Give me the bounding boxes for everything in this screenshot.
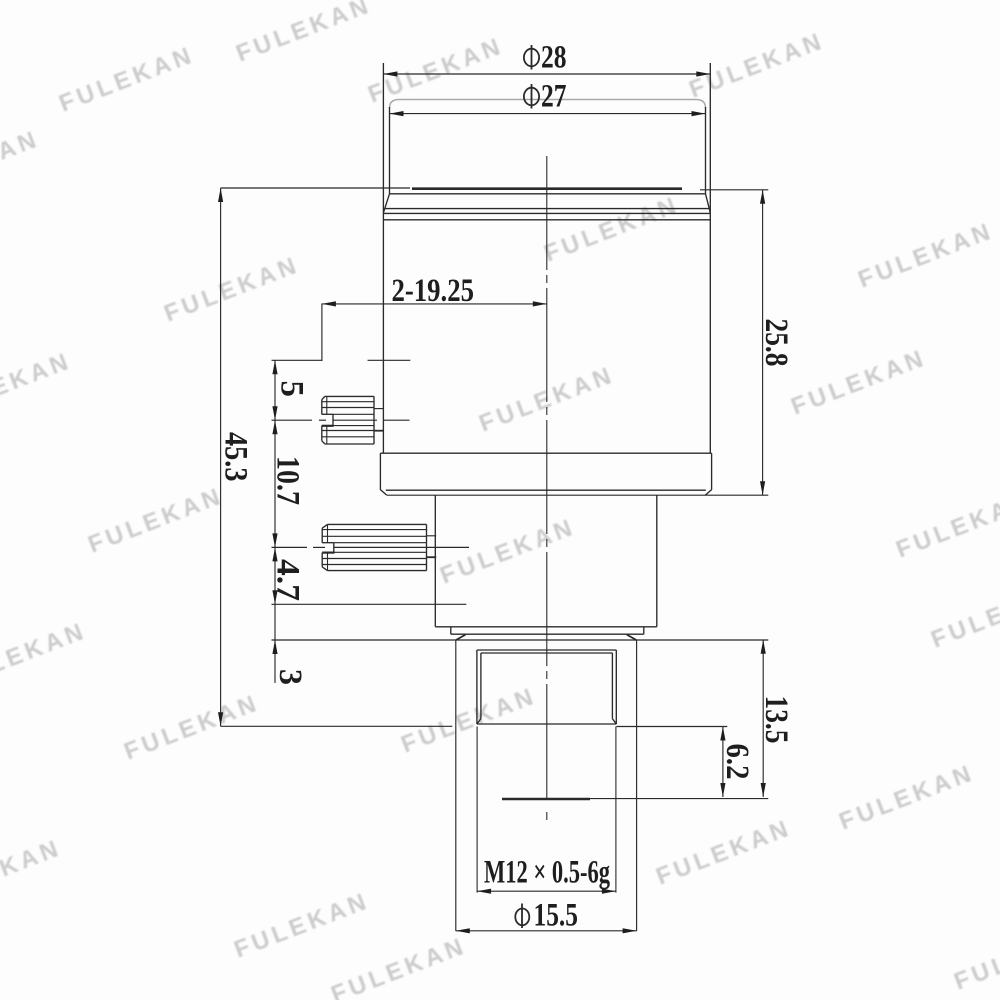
svg-text:6.2: 6.2	[719, 744, 755, 780]
screw2 shank	[427, 536, 437, 557]
cap phi27 left edge	[389, 107, 391, 194]
svg-text:FULEKAN: FULEKAN	[230, 887, 373, 963]
thread left crest edge	[476, 650, 478, 724]
svg-text:FULEKAN: FULEKAN	[787, 344, 930, 420]
flange bottom edge	[386, 489, 706, 491]
svg-text:2-19.25: 2-19.25	[392, 273, 475, 309]
screw2 knurl lines	[322, 530, 426, 565]
thread right root line	[611, 653, 613, 719]
flange bottom right chamfer	[705, 490, 711, 496]
svg-text:FULEKAN: FULEKAN	[160, 251, 303, 327]
svg-text:FULEKAN: FULEKAN	[84, 482, 227, 558]
neck right chamfer mark	[627, 635, 637, 640]
flange top edge	[380, 452, 711, 454]
svg-text:FULEKAN: FULEKAN	[854, 217, 997, 293]
tick y604	[272, 603, 467, 605]
screw2 slot	[322, 543, 334, 553]
svg-text:FULEKAN: FULEKAN	[120, 689, 263, 765]
screw2 head outline	[322, 524, 426, 570]
thread left root line	[480, 653, 482, 719]
ring bottom line	[383, 219, 710, 221]
dimension 2-19.25	[322, 304, 547, 362]
dimension phi27 arrows	[390, 111, 706, 116]
bottom extension line to 13.5 and 6.2	[590, 798, 768, 800]
chain arrows	[272, 360, 277, 654]
dimension M12 line	[477, 890, 616, 892]
svg-text:FULEKAN: FULEKAN	[0, 834, 65, 910]
long tick y640	[272, 639, 769, 641]
cap seam thick line	[412, 187, 682, 190]
ring groove line 1	[385, 208, 709, 210]
screw1 knurl lines	[322, 402, 374, 437]
svg-text:28: 28	[541, 40, 567, 76]
M12 left extension line	[476, 727, 478, 893]
svg-text:FULEKAN: FULEKAN	[436, 513, 579, 589]
mid cylinder bottom edge	[435, 626, 657, 628]
dimension phi27 line	[390, 113, 706, 115]
dimension 6.2	[617, 727, 728, 798]
phi15.5 left edge and extension line	[455, 640, 457, 931]
thread top inner line	[481, 652, 613, 654]
body left edge with phi28 extension	[382, 63, 384, 453]
ring left chamfer	[383, 194, 389, 213]
vertical centerline	[546, 156, 548, 820]
svg-text:FULEKAN: FULEKAN	[55, 41, 198, 117]
mid cylinder left edge	[434, 495, 436, 627]
phi15.5 right edge and extension line	[636, 640, 638, 931]
chain dimension vertical line	[272, 360, 769, 683]
svg-text:45.3: 45.3	[218, 432, 254, 482]
flange right edge	[711, 453, 713, 490]
dimension 45.3 arrows	[218, 188, 223, 726]
thread bottom edge	[477, 723, 616, 725]
screw1 shank	[374, 409, 384, 431]
step plate left edge	[450, 627, 452, 634]
svg-text:FULEKAN: FULEKAN	[0, 617, 90, 693]
svg-text:10.7: 10.7	[270, 456, 306, 505]
svg-text:FULEKAN: FULEKAN	[0, 347, 75, 423]
dimension phi28 line	[383, 73, 710, 75]
cap bottom edge	[390, 193, 706, 195]
ring right chamfer	[706, 194, 711, 213]
dimension 25.8	[700, 190, 768, 495]
svg-text:FULEKAN: FULEKAN	[327, 932, 470, 1000]
svg-text:FULEKAN: FULEKAN	[835, 759, 978, 835]
flange bottom left chamfer	[380, 490, 386, 496]
svg-text:13.5: 13.5	[758, 696, 794, 744]
screw1 head outline	[322, 396, 374, 444]
svg-text:4.7: 4.7	[270, 559, 306, 601]
svg-text:FULEKAN: FULEKAN	[397, 682, 540, 758]
dimension 45.3 line	[221, 188, 453, 726]
screw2 centerline	[272, 546, 470, 548]
screw1 centerline	[272, 419, 410, 421]
svg-text:FULEKAN: FULEKAN	[950, 919, 1000, 995]
svg-text:FULEKAN: FULEKAN	[652, 814, 795, 890]
dimension phi28 arrows	[383, 71, 710, 76]
phi symbol of phi27	[524, 84, 539, 109]
svg-text:FULEKAN: FULEKAN	[685, 27, 828, 103]
tick y360 segment b	[368, 359, 411, 361]
step plate bottom edge	[451, 633, 644, 635]
port bottom face thick line	[502, 798, 590, 801]
dimension 13.5	[762, 640, 764, 797]
thread right crest edge	[615, 650, 617, 724]
svg-text:FULEKAN: FULEKAN	[927, 577, 1000, 653]
svg-text:27: 27	[541, 79, 567, 115]
ring groove line 2	[383, 212, 710, 214]
screw1 slot	[322, 414, 334, 426]
svg-text:M12 × 0.5-6g: M12 × 0.5-6g	[484, 855, 610, 891]
svg-text:FULEKAN: FULEKAN	[892, 487, 1000, 563]
flange lower face line merged with 25.8 bottom extension	[387, 494, 768, 496]
thread bottom right chamfer	[612, 719, 616, 724]
svg-text:FULEKAN: FULEKAN	[364, 32, 507, 108]
cap phi27 right edge	[705, 107, 707, 194]
flange left edge	[379, 453, 381, 490]
svg-text:25.8: 25.8	[758, 319, 794, 367]
tick y360 segment a	[272, 359, 322, 361]
svg-text:FULEKAN: FULEKAN	[232, 0, 375, 68]
step plate right edge	[643, 627, 645, 634]
svg-text:FULEKAN: FULEKAN	[0, 125, 43, 201]
svg-text:15.5: 15.5	[534, 898, 579, 934]
neck left chamfer mark	[456, 635, 466, 640]
svg-text:3: 3	[272, 669, 308, 685]
phi symbol of phi15.5	[515, 904, 529, 929]
body right edge with phi28 extension	[709, 63, 711, 453]
svg-text:FULEKAN: FULEKAN	[540, 191, 683, 267]
M12 right extension line	[615, 727, 617, 893]
cap top edge (faint)	[390, 100, 706, 109]
mid cylinder right edge	[656, 495, 658, 627]
phi symbol of phi28	[524, 45, 539, 70]
thread top edge	[477, 649, 616, 651]
dimension phi15.5 line	[456, 930, 637, 932]
thread bottom left chamfer	[477, 719, 481, 724]
svg-text:5: 5	[274, 381, 310, 398]
